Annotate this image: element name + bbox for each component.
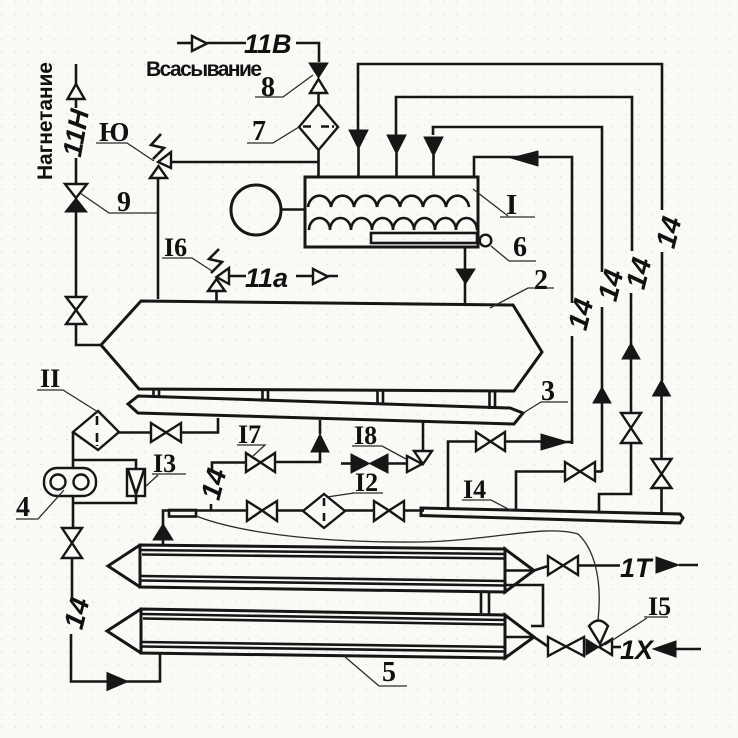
svg-text:I7: I7 (238, 420, 261, 449)
wire I8 stub (341, 462, 351, 465)
label I7 leader (237, 445, 265, 456)
svg-text:I: I (506, 189, 517, 221)
wire impulse line (thin curve to funnel I5) (196, 516, 599, 620)
wire I8 (388, 462, 407, 465)
arrow on L4 (left) (511, 151, 538, 166)
compressor outlet wire to vessel (464, 247, 467, 304)
wire HX2 to 1Х valves (534, 637, 548, 647)
pump 4 (gear pump) (44, 468, 96, 496)
funnel I5 (589, 621, 608, 645)
wire pump down (72, 496, 75, 528)
wire filter I2 to valve (345, 509, 374, 512)
wire return line L3 (433, 127, 602, 272)
wire return line L1 (outermost) (358, 64, 662, 210)
motor circle (231, 185, 281, 235)
compressor I body (305, 177, 478, 247)
label 9 leader (80, 193, 158, 213)
wire to vessel left tip (76, 324, 101, 345)
wire filter II to pump (72, 432, 75, 468)
valve below pump (hourglass) (62, 528, 82, 558)
wire I7 to 14 drop (212, 463, 246, 472)
HX upper left cap (108, 545, 140, 587)
label 5 leader (344, 656, 407, 686)
wire discharge top stub (75, 64, 78, 84)
wire I7 branch (275, 451, 320, 462)
label 6 leader (491, 246, 536, 261)
element 6 circle (480, 235, 492, 247)
wire 1Х tail (676, 648, 701, 651)
orifice on oil line (169, 510, 196, 517)
svg-text:7: 7 (252, 116, 266, 147)
svg-text:Ю: Ю (99, 117, 129, 147)
wire valve 10 to vessel top (157, 178, 160, 299)
wire valve down (71, 558, 74, 601)
wire branch 1 (505, 440, 541, 443)
wire V3 middle (630, 293, 633, 344)
label I4 leader (462, 500, 512, 511)
valve on oil line (left) (247, 501, 277, 521)
label 3 leader (520, 402, 568, 415)
arrow 1Х in (filled left) (653, 641, 676, 657)
valve I7 (246, 453, 275, 472)
arrow up on V4 (653, 380, 671, 396)
filter II (diamond) (73, 411, 119, 450)
heat exchanger 5 upper body (108, 545, 534, 592)
wire HX interconnect (double pipe) (481, 592, 489, 614)
wire header riser to V2 valve line (516, 472, 565, 511)
wire V4 middle (661, 252, 664, 381)
valve 9 (check valve) (65, 184, 87, 212)
label I8 leader (352, 446, 406, 459)
arrow 11В (hollow right) (192, 36, 207, 51)
wire relief line to valve 10 (172, 161, 319, 164)
wire collector to I8 branch (422, 421, 425, 452)
valve on V4 (hourglass) (652, 459, 672, 488)
wire return line L4 with junction to V1 (474, 157, 572, 303)
compressor I screw row 2 (309, 218, 477, 230)
wire 14 to HX2 inlet (71, 634, 160, 682)
wire HX right-end connector (506, 585, 543, 626)
wire 14 drop to oil line (210, 504, 213, 511)
heat exchanger 5 lower body (107, 609, 534, 658)
arrow up into collector (I7 branch) (311, 434, 329, 452)
vessel riser 2 (263, 390, 269, 401)
svg-text:II: II (40, 364, 60, 393)
valve 8 (check valve) (309, 63, 328, 93)
filter II center dash (96, 416, 99, 446)
wire 1Т tail (679, 564, 698, 567)
svg-text:1Х: 1Х (620, 635, 655, 665)
wire 11а arrow stub (296, 275, 338, 278)
valve I8 throttle (filled bowtie) (351, 454, 388, 473)
wire after arrow (207, 42, 246, 45)
valve I8 angle (hollow down + right triangles) (407, 451, 432, 472)
svg-text:3: 3 (541, 376, 555, 407)
svg-text:I4: I4 (463, 475, 486, 504)
svg-text:I2: I2 (355, 468, 378, 497)
wire return line L2 (396, 97, 632, 251)
label Ю leader (96, 143, 154, 161)
wire arrow to compressor top (432, 155, 435, 177)
wire motor to compressor (281, 208, 305, 211)
bypass loop with filter I3 (73, 460, 136, 503)
wire V3 to valve (630, 359, 633, 413)
arrow up on V2 (593, 387, 611, 403)
HX lower left cap (107, 609, 141, 653)
valve I6 safety (angle valve with spring) (208, 249, 229, 302)
valve on V2 line (565, 462, 595, 481)
wire 1Т (578, 564, 620, 567)
svg-text:11а: 11а (245, 263, 288, 293)
wire valve9 to hourglass valve (75, 212, 78, 297)
wire 11а line (229, 275, 246, 278)
svg-text:Нагнетание: Нагнетание (34, 62, 57, 180)
wire 11Н to valve 9 (75, 158, 78, 184)
svg-text:1Т: 1Т (620, 553, 654, 583)
arrow discharge up (hollow) (68, 84, 85, 99)
svg-text:4: 4 (16, 492, 30, 523)
svg-text:I5: I5 (648, 592, 671, 621)
filter I3 box (127, 469, 145, 496)
svg-text:2: 2 (534, 265, 548, 296)
valve on 1Т line (548, 556, 578, 575)
valve on discharge line (hourglass) (66, 297, 86, 324)
arrow up from HX1 (153, 524, 173, 540)
label I6 leader (162, 258, 212, 271)
wire valve to header bar I4 (404, 509, 424, 512)
label I3 leader (145, 474, 186, 487)
svg-text:6: 6 (513, 232, 527, 263)
valve on 1Х line (left) (548, 637, 584, 656)
arrow into compressor (right) (424, 137, 443, 156)
collector 3 (oil drain header) (128, 396, 523, 424)
wire valve to V2 (595, 470, 602, 473)
valve on oil line (right) (374, 501, 404, 521)
HX upper right cap (505, 549, 534, 592)
wire V2 to valve junction (601, 403, 604, 472)
valve I5 three-way (586, 639, 612, 655)
svg-text:9: 9 (117, 187, 131, 218)
wire valve to filter II (119, 431, 151, 434)
compressor I screw row 1 (308, 196, 469, 207)
HX lower right cap (505, 615, 534, 658)
wire oil line riser (163, 511, 247, 527)
wire V1 lower (571, 336, 574, 444)
valve below collector (left, to filter II) (151, 423, 181, 442)
svg-text:I6: I6 (164, 233, 187, 262)
wire V2 lower (601, 307, 604, 388)
wire header riser to branch 1 (448, 442, 476, 510)
filter 7 (diamond) (299, 104, 338, 150)
wire HX1 to 1Т valve (534, 566, 548, 571)
label 8 leader (255, 75, 313, 97)
vessel riser 1 (154, 389, 160, 398)
wire 11В inlet (177, 42, 192, 45)
vessel riser 4 (490, 392, 496, 409)
svg-text:I8: I8 (354, 421, 377, 450)
wire oil line from HX1 (162, 524, 165, 545)
wire below arrow (75, 99, 78, 108)
wire 11В to valve 8 (296, 43, 319, 62)
label I leader (473, 189, 535, 217)
arrow into compressor (left) (349, 130, 368, 149)
arrow right on branch 1 (541, 434, 568, 450)
arrow 11а (hollow right) (313, 269, 328, 284)
label II leader (37, 390, 98, 412)
wire valve to filter I2 (277, 509, 303, 512)
wire valve 8 to filter 7 (317, 93, 320, 104)
wire filter 7 outlet to compressor (317, 150, 320, 177)
vessel riser 3 (378, 391, 384, 405)
wire 1Х stub (612, 646, 621, 649)
label 2 leader (490, 288, 554, 308)
wire arrow to compressor top (395, 153, 398, 177)
label 7 leader (247, 127, 299, 143)
svg-text:Всасывание: Всасывание (146, 58, 262, 81)
slide element 6 (371, 233, 477, 243)
wire branch1 to V1 (566, 441, 572, 444)
arrow right on oil feed (107, 673, 128, 691)
wire collector to I7 branch (319, 420, 322, 434)
filter I2 center dash (323, 498, 326, 524)
arrow into compressor (middle) (387, 135, 406, 154)
wire V4 to header bar (660, 488, 663, 515)
valve on V3 (hourglass) (621, 413, 641, 443)
filter 7 center dash (303, 125, 334, 128)
wire collector to valve branch (left) (181, 418, 218, 433)
arrow up on V3 (622, 343, 640, 359)
valve 10 safety (angle valve with spring) (150, 134, 171, 178)
svg-text:I3: I3 (153, 449, 176, 478)
svg-text:5: 5 (382, 657, 396, 688)
label I2 leader (327, 493, 383, 497)
wire arrow to compressor top (357, 148, 360, 177)
filter I2 (diamond) (303, 494, 345, 528)
wire V3 bottom step to header (599, 443, 631, 512)
label I5 leader (605, 617, 668, 645)
wire V4 to valve (660, 396, 663, 459)
arrow compressor outlet (down) (456, 269, 475, 284)
label 4 leader (16, 490, 64, 519)
arrow 1Т out (filled right) (656, 557, 679, 573)
vessel 2 (oil separator) (101, 301, 542, 391)
valve on branch 1 (476, 432, 505, 451)
header bar I4 (421, 508, 683, 523)
svg-text:11В: 11В (244, 29, 292, 59)
svg-text:8: 8 (261, 72, 275, 103)
